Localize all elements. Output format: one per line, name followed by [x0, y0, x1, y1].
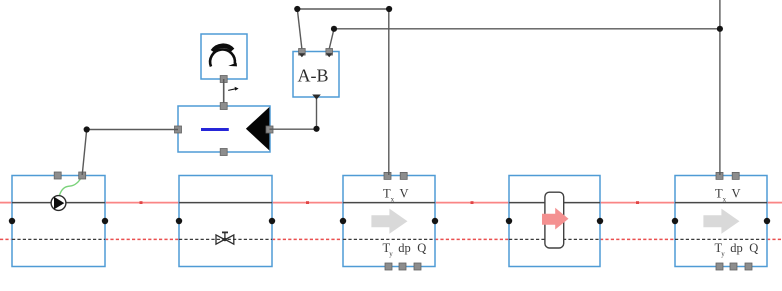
node: pump box top connector squares — [54, 172, 85, 179]
component box: consumer unit — [509, 176, 600, 267]
blue minus bar — [201, 128, 229, 131]
node: bottom connector square — [220, 149, 227, 156]
speed source block (rotation icon) — [201, 34, 247, 83]
node: sensor 1 bottom connector squares — [385, 263, 421, 270]
svg-text:V: V — [400, 187, 409, 201]
wire: junction to pump control — [82, 126, 178, 175]
svg-text:x: x — [391, 195, 395, 203]
svg-text:Q: Q — [749, 241, 758, 255]
wire: vertical drop to sensor 2 — [719, 0, 721, 175]
wire: subtract output to A-B output drop — [270, 99, 320, 132]
node: flow direction markers on supply line — [140, 201, 640, 204]
valve V1 — [216, 232, 234, 244]
consumer load element (capsule) — [542, 192, 569, 248]
black triangle pointing left — [246, 107, 270, 151]
component box: pump unit — [12, 176, 105, 267]
wire: speed source to subtract block — [223, 79, 225, 106]
wire: supply line red segments between components — [0, 202, 782, 204]
sensor block 2: flow arrow — [703, 209, 739, 234]
node: top connector square — [220, 103, 227, 110]
input connector B (square + arrowhead) — [326, 49, 333, 56]
node: bottom connector square of speed source — [220, 76, 227, 83]
node: junction dot — [84, 126, 90, 132]
svg-text:y: y — [721, 250, 725, 258]
rotation crescent arc — [210, 50, 235, 67]
pump P1 — [51, 196, 66, 211]
rotation arrowhead — [228, 63, 237, 67]
svg-text:dp: dp — [730, 241, 743, 255]
wire: supply line dark segments inside components — [12, 202, 767, 204]
node: sensor 2 bottom connector squares — [716, 263, 752, 270]
output connector triangle — [312, 95, 321, 100]
node: junction dot — [313, 126, 319, 132]
node: junction dots on control wires — [294, 6, 723, 32]
subtract / feedback block U1 — [175, 103, 274, 156]
sensor block 1: labels Ty dp Q — [383, 241, 427, 258]
consumer flow arrow (pink) — [542, 208, 569, 230]
node: sensor 1 top connector squares — [384, 172, 407, 179]
svg-text:dp: dp — [398, 241, 411, 255]
component box: valve unit — [179, 176, 272, 267]
A-B difference block U2 — [293, 49, 339, 100]
node: right connector square — [266, 126, 273, 133]
wire: second bus y=28.8 — [334, 28, 720, 30]
sensor block 1: flow arrow — [371, 209, 407, 234]
svg-text:Q: Q — [417, 241, 426, 255]
wire: return line red dashed segments between components — [0, 238, 782, 240]
input connector A (square + arrowhead) — [299, 49, 306, 56]
component box: sensor unit 1 — [343, 176, 435, 267]
wire: return line dark dashed segments inside components — [12, 238, 767, 240]
sensor block 1: labels Tx V — [383, 187, 409, 204]
sensor block 2: labels Tx V — [715, 187, 741, 204]
component box: sensor unit 2 — [675, 176, 767, 267]
wire: green pump control link — [60, 177, 82, 195]
wire: vertical drop to sensor 1 — [388, 9, 390, 175]
svg-text:V: V — [732, 187, 741, 201]
wire: slanted input A to subtract block — [297, 9, 302, 49]
svg-text:A-B: A-B — [298, 66, 329, 86]
node: left connector square — [175, 126, 182, 133]
sensor block 2: labels Ty dp Q — [715, 241, 759, 258]
annotation: small arrow beside wire — [228, 87, 238, 91]
svg-text:x: x — [723, 195, 727, 203]
node: port dots on component edges — [9, 218, 770, 224]
wire: slanted input B to subtract block — [329, 29, 334, 49]
wire: top bus y=9 — [297, 8, 389, 10]
svg-text:y: y — [389, 250, 393, 258]
node: sensor 2 top connector squares — [716, 172, 739, 179]
